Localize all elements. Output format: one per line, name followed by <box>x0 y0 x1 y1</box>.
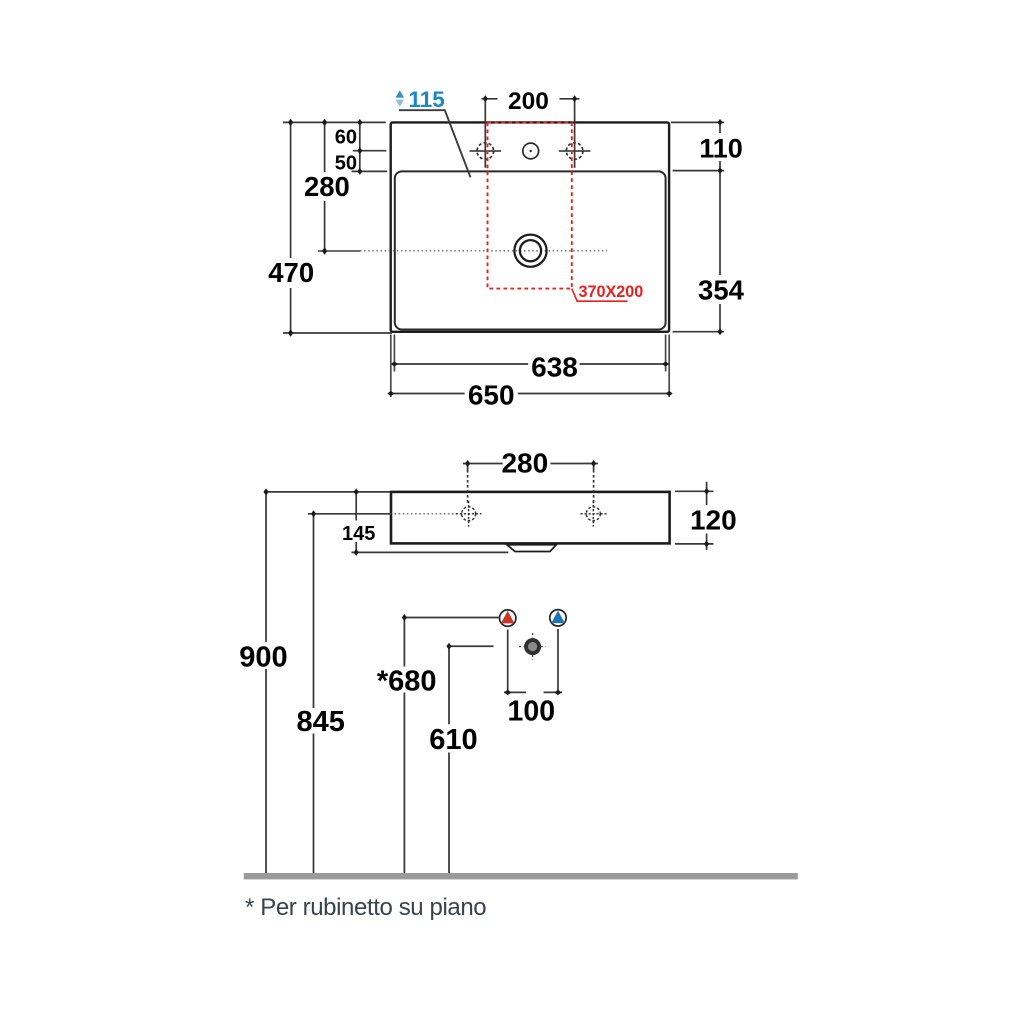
red leader + label <box>572 289 628 302</box>
svg-text:280: 280 <box>304 171 350 202</box>
dimension 280 (to drain center) <box>324 122 326 251</box>
svg-text:* Per rubinetto su piano: * Per rubinetto su piano <box>245 894 486 921</box>
dimension chain 60 / 50 <box>352 122 388 171</box>
drain outlet symbol (gray) <box>519 633 546 660</box>
svg-text:120: 120 <box>690 505 737 536</box>
overflow hole (center small circle) <box>523 143 539 159</box>
svg-text:354: 354 <box>698 275 745 306</box>
svg-text:100: 100 <box>508 696 556 728</box>
floor line <box>244 873 798 879</box>
faucet hole left <box>470 143 502 160</box>
svg-text:145: 145 <box>342 523 375 545</box>
svg-text:845: 845 <box>297 706 345 738</box>
dimension 650 <box>391 393 669 395</box>
dotted centerline through drain <box>318 250 360 252</box>
dimension 200 (top) <box>481 99 579 168</box>
dimension 110 / 354 (right) <box>671 122 724 331</box>
hot water symbol (red) <box>500 610 516 626</box>
dotted centerline (front) <box>395 513 461 515</box>
faucet hole right <box>559 143 591 160</box>
dimension 120 (front right) <box>675 482 714 550</box>
fixing hole right (front) <box>581 501 607 527</box>
basin outer body (plan) <box>391 122 669 331</box>
svg-text:50: 50 <box>335 153 357 175</box>
dimension 470 (left) <box>283 122 392 333</box>
svg-text:610: 610 <box>429 724 477 756</box>
900 line <box>265 492 267 873</box>
dimension 280 (front holes) <box>463 464 598 506</box>
svg-text:110: 110 <box>699 133 743 163</box>
svg-text:470: 470 <box>268 257 314 288</box>
svg-text:900: 900 <box>239 641 287 673</box>
basin body (front) <box>391 492 670 544</box>
svg-text:650: 650 <box>468 379 515 410</box>
svg-text:638: 638 <box>531 351 578 382</box>
drain boss (front trapezoid) <box>507 545 556 552</box>
blue height note 115 <box>396 87 471 177</box>
dimension 638 <box>394 363 665 365</box>
basin inner bowl (plan) <box>395 171 666 329</box>
svg-text:60: 60 <box>335 127 357 149</box>
fixing hole left (front) <box>456 501 482 527</box>
svg-text:*680: *680 <box>377 666 437 698</box>
610 line <box>449 646 494 873</box>
svg-text:200: 200 <box>508 88 549 115</box>
*680 line <box>404 618 498 874</box>
cold water symbol (blue) <box>550 610 566 626</box>
drain circles <box>514 235 546 267</box>
dimension 145 (front left) <box>264 492 508 553</box>
svg-text:370X200: 370X200 <box>579 283 644 301</box>
845 line <box>313 514 315 873</box>
svg-text:115: 115 <box>409 87 445 112</box>
red dashed cut-out rectangle 370X200 <box>488 123 572 289</box>
dimension 100 (between supplies) <box>504 629 562 692</box>
mounting rails below basin (plan) <box>391 335 669 398</box>
svg-text:280: 280 <box>501 448 548 479</box>
